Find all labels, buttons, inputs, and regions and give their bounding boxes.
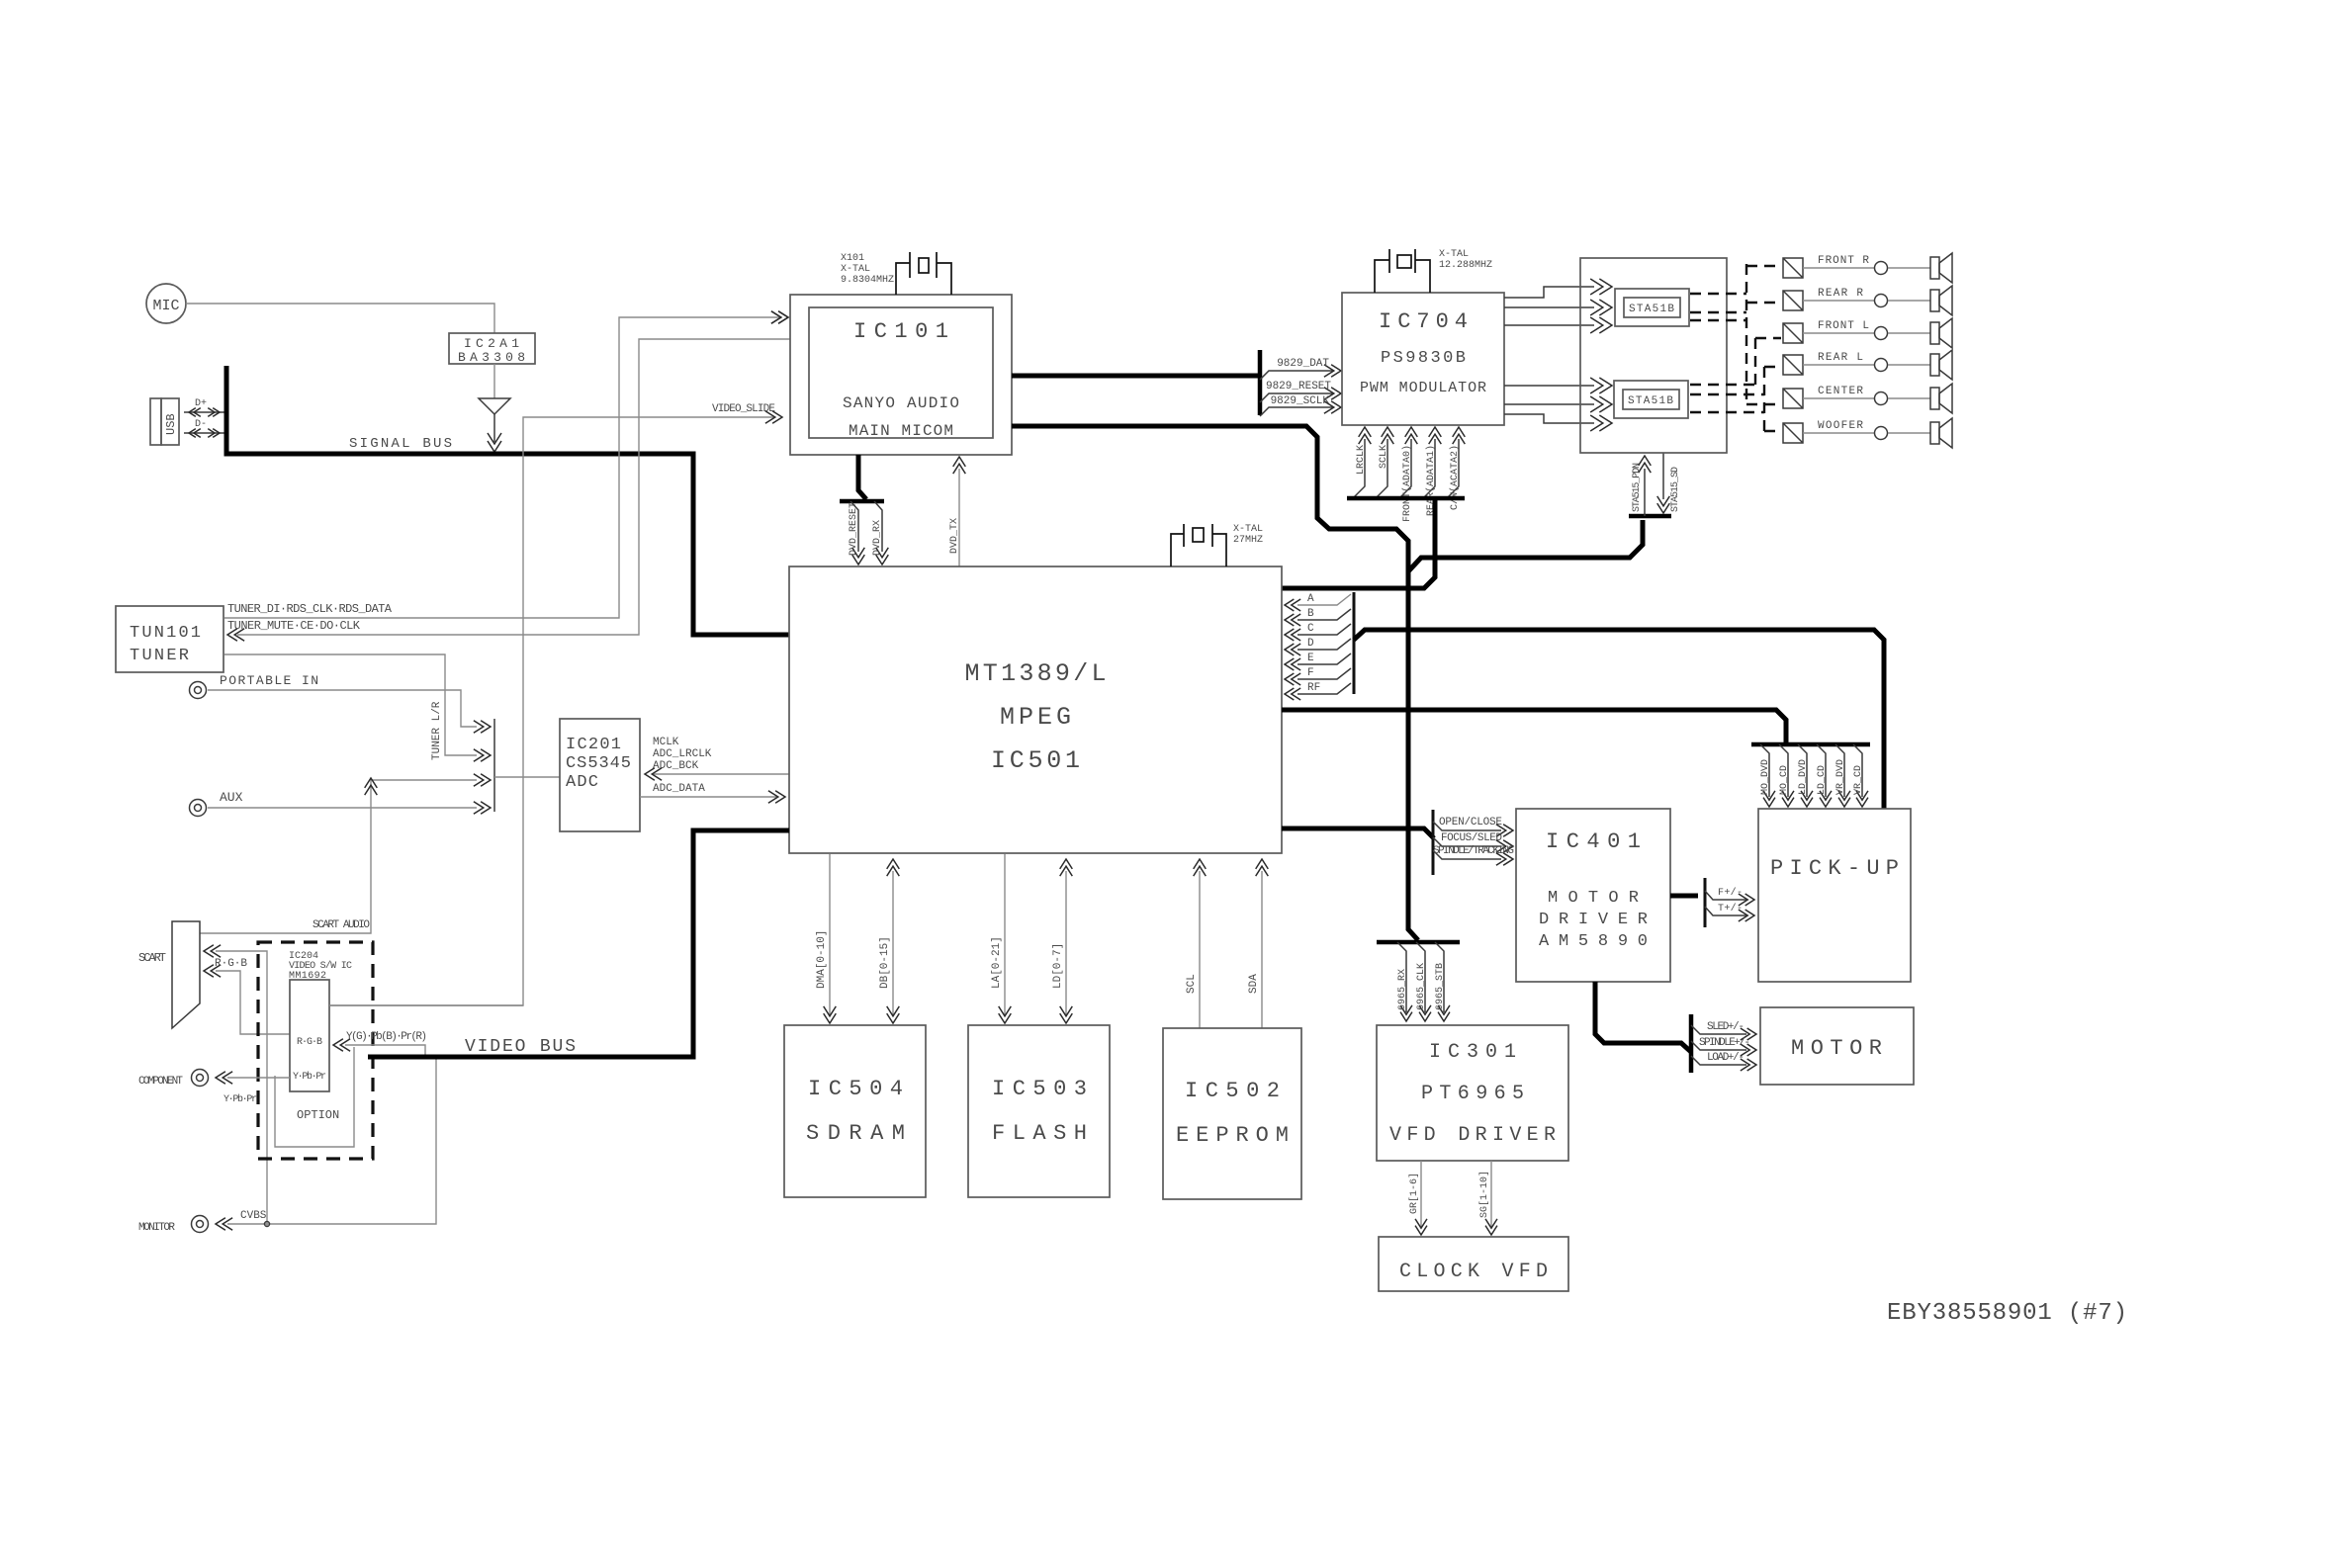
wire DMA[0-10] <box>816 854 836 1023</box>
crystal X-TAL 27MHZ <box>1171 524 1263 566</box>
node servo bus bar <box>1432 810 1435 875</box>
svg-text:TUNER_MUTE·CE·DO·CLK: TUNER_MUTE·CE·DO·CLK <box>227 619 361 633</box>
signal 9829_SCLK <box>1260 395 1341 416</box>
svg-text:PWM MODULATOR: PWM MODULATOR <box>1360 380 1486 396</box>
connector PORTABLE IN <box>190 673 319 699</box>
wire IC101 to 9829 bus <box>1012 374 1260 379</box>
svg-text:ADC: ADC <box>566 773 598 792</box>
svg-text:ADC_DATA: ADC_DATA <box>653 783 705 795</box>
svg-text:MO_DVD: MO_DVD <box>1760 759 1771 795</box>
svg-text:DVD_RESET: DVD_RESET <box>849 502 859 556</box>
svg-text:6965_RX: 6965_RX <box>1397 969 1408 1010</box>
svg-text:X101: X101 <box>841 253 864 264</box>
svg-text:CENTER: CENTER <box>1818 386 1863 397</box>
node motor bus bar <box>1689 1014 1694 1073</box>
svg-text:COMPONENT: COMPONENT <box>138 1076 183 1088</box>
svg-text:TUNER: TUNER <box>130 647 189 665</box>
micom IC101 inner <box>809 307 993 440</box>
dashed net REAR R <box>1690 303 1781 312</box>
wire STA515 branch <box>1408 520 1643 571</box>
svg-text:STA515_PDN: STA515_PDN <box>1632 463 1643 512</box>
wire PWM out E <box>1504 396 1612 412</box>
svg-text:LRCLK: LRCLK <box>1356 445 1367 475</box>
svg-text:VIDEO BUS: VIDEO BUS <box>465 1037 576 1057</box>
microphone MIC <box>146 284 186 323</box>
svg-text:DVD_TX: DVD_TX <box>949 518 960 554</box>
svg-text:STA515_SD: STA515_SD <box>1670 467 1681 512</box>
svg-text:PORTABLE IN: PORTABLE IN <box>220 673 318 688</box>
svg-text:EBY38558901 (#7): EBY38558901 (#7) <box>1887 1300 2127 1327</box>
signal R G B to SCART <box>204 945 290 1227</box>
wire SCART AUDIO <box>200 774 491 933</box>
dashed bus vertical 2 <box>1754 338 1756 388</box>
svg-text:MONITOR: MONITOR <box>138 1222 175 1234</box>
svg-text:X-TAL: X-TAL <box>1233 524 1263 535</box>
svg-text:FRONT R: FRONT R <box>1818 255 1869 267</box>
wire into IC101 pin1 <box>771 311 788 324</box>
wire PWM out C <box>1504 317 1612 333</box>
svg-text:RF: RF <box>1307 682 1320 694</box>
connector USB <box>150 398 179 445</box>
svg-text:9829_RESET: 9829_RESET <box>1266 381 1331 392</box>
svg-text:REAR L: REAR L <box>1818 352 1863 364</box>
connector SCART <box>138 921 200 1028</box>
svg-text:A: A <box>1307 593 1314 605</box>
dashed net CENTER <box>1690 394 1781 404</box>
video switch IC204 <box>289 951 352 1091</box>
wire CVBS <box>227 1057 436 1227</box>
signals A-RF to pickup <box>1285 593 1351 700</box>
wire DB[0-15] <box>879 859 899 1023</box>
signal SPINDLE+/- <box>1691 1037 1756 1056</box>
tuner TUN101 <box>116 606 224 672</box>
svg-text:Y·Pb·Pr: Y·Pb·Pr <box>224 1093 257 1105</box>
signals 6965 to IC301 <box>1397 942 1450 1021</box>
option dashed box <box>258 942 373 1159</box>
wire audio bus to IC501 <box>1282 498 1435 588</box>
svg-text:STA51B: STA51B <box>1628 395 1673 407</box>
wire SDA <box>1248 859 1268 1028</box>
svg-text:SCL: SCL <box>1186 974 1198 994</box>
wire IC401 to pickup <box>1670 894 1698 899</box>
svg-text:ADC_LRCLK: ADC_LRCLK <box>653 748 712 760</box>
signals LRCLK SCLK FRONT REAR C/W <box>1353 427 1465 522</box>
mpeg decoder IC501 MT1389 <box>789 566 1282 853</box>
svg-text:F+/-: F+/- <box>1718 887 1743 899</box>
svg-text:DMA[0-10]: DMA[0-10] <box>816 930 828 989</box>
motor driver IC401 <box>1516 809 1670 982</box>
svg-text:TUNER L/R: TUNER L/R <box>431 701 443 760</box>
svg-text:FRONT L: FRONT L <box>1818 320 1869 332</box>
svg-text:9.8304MHZ: 9.8304MHZ <box>841 275 894 286</box>
svg-text:REAR R: REAR R <box>1818 288 1863 300</box>
svg-text:27MHZ: 27MHZ <box>1233 535 1263 546</box>
dashed net FRONT R <box>1690 266 1781 294</box>
svg-text:IC501: IC501 <box>991 746 1080 775</box>
flash IC503 <box>968 1025 1110 1197</box>
node F/T bus bar <box>1704 878 1707 927</box>
svg-text:SCLK: SCLK <box>1379 445 1389 469</box>
svg-text:CLOCK VFD: CLOCK VFD <box>1399 1261 1548 1283</box>
amplifier STA51B upper <box>1615 289 1689 326</box>
wire RF bus to PICK-UP <box>1354 630 1884 809</box>
signal SG[1-10] <box>1478 1161 1497 1235</box>
svg-text:MO_CD: MO_CD <box>1779 765 1790 795</box>
signal T+/- <box>1705 903 1754 921</box>
connector COMPONENT <box>138 1070 290 1106</box>
wire triangle to signal bus <box>488 414 501 452</box>
wire SCL <box>1186 859 1206 1028</box>
svg-text:LD[0-7]: LD[0-7] <box>1052 943 1064 989</box>
signal 9829_RESET <box>1260 381 1341 402</box>
svg-text:CS5345: CS5345 <box>566 754 631 773</box>
svg-text:SLED+/-: SLED+/- <box>1707 1021 1744 1033</box>
dashed net FRONT L <box>1690 320 1781 338</box>
svg-text:CVBS: CVBS <box>240 1210 267 1222</box>
amplifier STA51B lower <box>1614 381 1688 418</box>
svg-text:STA51B: STA51B <box>1629 304 1674 315</box>
speaker FRONT R <box>1783 253 1952 283</box>
svg-text:WOOFER: WOOFER <box>1818 420 1863 432</box>
wire MIC to IC2A1 <box>186 304 494 333</box>
pin Y.Pb.Pr <box>293 1071 326 1083</box>
sdram IC504 <box>784 1025 926 1197</box>
wire IC204 video slide link <box>329 1004 523 1006</box>
signal LOAD+/- <box>1691 1052 1756 1071</box>
adc IC201 CS5345 <box>560 719 640 831</box>
speaker CENTER <box>1783 384 1952 413</box>
signal GR[1-6] <box>1408 1161 1427 1235</box>
svg-text:9829_SCLK: 9829_SCLK <box>1271 395 1330 407</box>
signal DVD_TX <box>949 457 965 566</box>
crystal X101 <box>841 252 951 295</box>
node IC704 audio bus bar <box>1347 496 1465 501</box>
wire VIDEO_SLIDE <box>329 403 782 1005</box>
svg-text:OPEN/CLOSE: OPEN/CLOSE <box>1439 817 1502 828</box>
svg-text:9829_DAT: 9829_DAT <box>1277 358 1329 370</box>
wire VIDEO BUS <box>368 830 789 1057</box>
speaker WOOFER <box>1783 418 1952 448</box>
svg-text:SPINDLE+/-: SPINDLE+/- <box>1699 1037 1750 1049</box>
dashed bus vertical 3 <box>1763 367 1765 431</box>
svg-text:Y·Pb·Pr: Y·Pb·Pr <box>293 1071 326 1083</box>
svg-text:PS9830B: PS9830B <box>1381 349 1466 368</box>
svg-text:SDA: SDA <box>1248 974 1260 994</box>
crystal X-TAL 12.288MHZ <box>1375 249 1492 293</box>
node 9829 bus bar <box>1258 350 1263 415</box>
wire option loop <box>275 1047 354 1147</box>
pickup PICK-UP <box>1758 809 1911 982</box>
svg-text:TUNER_DI·RDS_CLK·RDS_DATA: TUNER_DI·RDS_CLK·RDS_DATA <box>227 602 393 616</box>
connector AUX <box>190 790 243 817</box>
svg-text:SCART AUDIO: SCART AUDIO <box>313 919 370 931</box>
signal D+ <box>184 398 224 416</box>
svg-text:X-TAL: X-TAL <box>1439 249 1469 260</box>
svg-text:SPINDLE/TRACKING: SPINDLE/TRACKING <box>1433 845 1514 857</box>
svg-text:DVD_RX: DVD_RX <box>872 520 883 556</box>
wire TUNER_DI RDS_CLK RDS_DATA <box>224 311 788 618</box>
svg-text:IC201: IC201 <box>566 736 621 754</box>
svg-text:B: B <box>1307 608 1314 620</box>
svg-text:MM1692: MM1692 <box>289 971 326 982</box>
svg-text:MIC: MIC <box>152 298 179 314</box>
svg-text:DB[0-15]: DB[0-15] <box>879 936 891 989</box>
vfd driver IC301 <box>1377 1025 1568 1161</box>
signal DVD_RESET <box>849 501 864 565</box>
wire ADC_DATA <box>640 783 785 803</box>
wire SIGNAL BUS <box>226 366 789 635</box>
wire servo bus <box>1282 828 1434 838</box>
signal SLED+/- <box>1691 1021 1756 1040</box>
signal DVD_RX <box>872 501 888 565</box>
net OPTION label <box>297 1108 339 1122</box>
note EBY38558901 (#7) <box>1887 1300 2127 1327</box>
svg-text:D+: D+ <box>195 398 207 409</box>
signal OPEN/CLOSE <box>1433 817 1513 836</box>
svg-text:6965_STB: 6965_STB <box>1435 963 1446 1010</box>
connector MONITOR <box>138 1216 232 1235</box>
node A-RF bus bar <box>1353 592 1356 694</box>
eeprom IC502 <box>1163 1028 1301 1199</box>
signal F+/- <box>1705 887 1754 906</box>
amplifier triangle <box>479 398 510 414</box>
wire IC101 main bus <box>1012 426 1418 940</box>
svg-text:AUX: AUX <box>220 790 243 805</box>
svg-text:USB: USB <box>164 413 178 435</box>
signal STA515_SD <box>1657 453 1681 513</box>
motor MOTOR <box>1760 1007 1914 1085</box>
svg-text:LOAD+/-: LOAD+/- <box>1707 1052 1744 1064</box>
svg-text:PICK-UP: PICK-UP <box>1770 856 1899 881</box>
svg-text:F: F <box>1307 667 1314 679</box>
svg-text:6965_CLK: 6965_CLK <box>1416 963 1427 1010</box>
svg-text:FRONT(ADATA0): FRONT(ADATA0) <box>1401 445 1413 522</box>
svg-text:C: C <box>1307 623 1314 635</box>
svg-text:SG[1-10]: SG[1-10] <box>1478 1171 1490 1218</box>
svg-text:R·G·B: R·G·B <box>297 1037 322 1048</box>
svg-text:OPTION: OPTION <box>297 1108 339 1122</box>
wire mix to IC201 <box>494 776 560 778</box>
svg-text:GR[1-6]: GR[1-6] <box>1408 1173 1420 1214</box>
wire LA[0-21] <box>991 854 1011 1023</box>
wire TUNER_MUTE CE DO CLK <box>227 339 790 641</box>
signals MO LD VR to pickup <box>1760 744 1868 807</box>
svg-text:VR_CD: VR_CD <box>1853 765 1864 795</box>
svg-text:D: D <box>1307 638 1314 650</box>
node audio mix junction <box>493 719 495 812</box>
svg-text:T+/-: T+/- <box>1718 903 1743 915</box>
signal FOCUS/SLED <box>1433 832 1513 852</box>
svg-text:X-TAL: X-TAL <box>841 264 870 275</box>
svg-text:R·G·B: R·G·B <box>215 958 247 970</box>
dashed net REAR L <box>1690 367 1781 385</box>
svg-text:MAIN MICOM: MAIN MICOM <box>849 422 953 440</box>
wire PWM out F <box>1504 414 1612 431</box>
svg-text:VR_DVD: VR_DVD <box>1835 759 1846 795</box>
svg-text:12.288MHZ: 12.288MHZ <box>1439 260 1492 271</box>
svg-text:FOCUS/SLED: FOCUS/SLED <box>1441 832 1502 844</box>
svg-text:E: E <box>1307 653 1314 664</box>
wire LD[0-7] <box>1052 859 1072 1023</box>
wire PWM out B <box>1504 300 1612 315</box>
power amp block <box>1580 258 1727 453</box>
signal Y(G) Pb(B) Pr(R) <box>333 1031 427 1055</box>
signal 9829_DAT <box>1260 358 1341 380</box>
wire IC401 to motor bus <box>1595 982 1691 1052</box>
dashed bus vertical 1 <box>1745 264 1747 404</box>
svg-text:ADC_BCK: ADC_BCK <box>653 760 699 772</box>
svg-text:SANYO AUDIO: SANYO AUDIO <box>843 394 959 412</box>
svg-text:MCLK: MCLK <box>653 737 679 748</box>
svg-text:LD_DVD: LD_DVD <box>1798 759 1809 795</box>
svg-text:VIDEO_SLIDE: VIDEO_SLIDE <box>712 403 775 415</box>
net VIDEO BUS label <box>465 1037 576 1057</box>
wire laser supply bus <box>1282 710 1786 744</box>
speaker REAR L <box>1783 350 1952 380</box>
node DVD bus bar <box>840 499 884 504</box>
signal SPINDLE/TRACKING <box>1433 845 1514 865</box>
wire PWM out A <box>1504 279 1612 298</box>
svg-text:LA[0-21]: LA[0-21] <box>991 936 1003 989</box>
wire PWM out D <box>1504 378 1612 393</box>
signal STA515_PDN <box>1632 456 1651 516</box>
dashed net WOOFER <box>1690 412 1781 431</box>
buffer IC2A1 BA3308 <box>449 333 535 365</box>
svg-text:D-: D- <box>195 419 207 430</box>
wire AUX <box>208 802 491 815</box>
display CLOCK VFD <box>1379 1237 1568 1291</box>
micom IC101 outer <box>790 295 1012 455</box>
svg-text:Y(G)·Pb(B)·Pr(R): Y(G)·Pb(B)·Pr(R) <box>346 1031 427 1043</box>
node STA515 bus bar <box>1629 514 1671 519</box>
net SIGNAL BUS label <box>349 436 452 452</box>
wire TUNER L/R <box>224 654 491 761</box>
svg-text:SCART: SCART <box>138 951 166 965</box>
node pickup bus bar <box>1751 742 1870 747</box>
pin R.G.B <box>297 1037 322 1048</box>
wire IC2A1 down <box>493 364 495 398</box>
speaker REAR R <box>1783 286 1952 315</box>
node 6965 bus bar <box>1377 940 1460 945</box>
speaker FRONT L <box>1783 318 1952 348</box>
wire PORTABLE IN <box>208 690 491 733</box>
signal D- <box>184 419 224 437</box>
wire IC101 dvd link <box>858 455 866 499</box>
svg-text:LD_CD: LD_CD <box>1817 765 1828 795</box>
pwm modulator IC704 <box>1342 293 1504 425</box>
wire MCLK ADC_LRCLK ADC_BCK <box>645 737 789 780</box>
